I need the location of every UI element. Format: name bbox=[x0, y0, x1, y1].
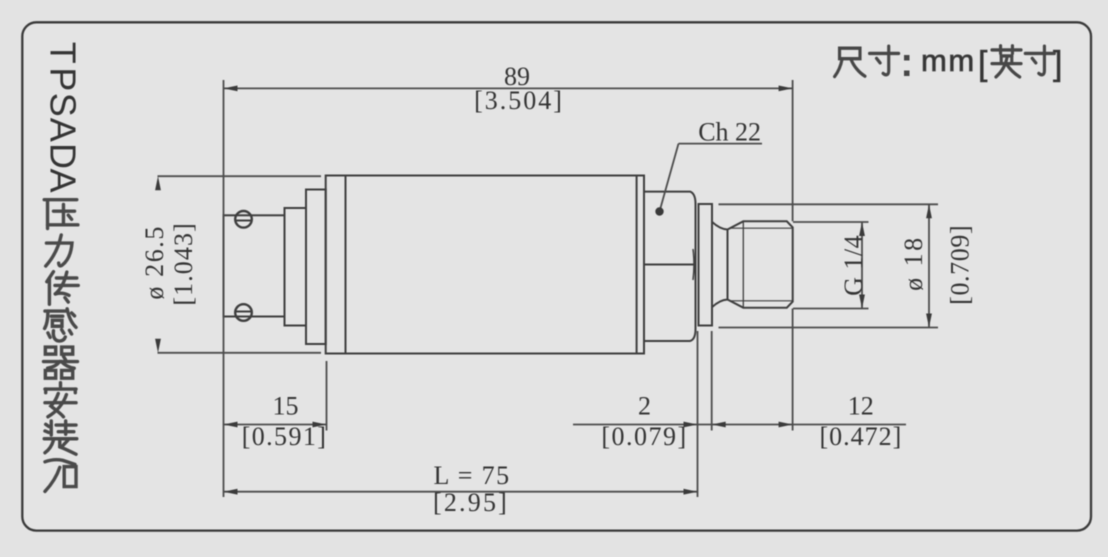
svg-text:ø 18: ø 18 bbox=[899, 235, 928, 291]
svg-text:P: P bbox=[43, 67, 84, 91]
svg-text:]: ] bbox=[1053, 45, 1062, 83]
svg-text:[: [ bbox=[978, 45, 988, 83]
svg-text:L = 75: L = 75 bbox=[434, 461, 511, 490]
svg-text:[3.504]: [3.504] bbox=[474, 86, 564, 115]
svg-text:ø 26.5: ø 26.5 bbox=[140, 225, 169, 300]
svg-text:[0.079]: [0.079] bbox=[601, 422, 687, 451]
svg-text:G 1/4: G 1/4 bbox=[839, 235, 868, 296]
svg-text:A: A bbox=[43, 118, 84, 142]
svg-text:D: D bbox=[43, 143, 84, 169]
svg-text:S: S bbox=[43, 93, 84, 117]
svg-text:[1.043]: [1.043] bbox=[169, 222, 198, 306]
svg-text:2: 2 bbox=[638, 392, 651, 421]
svg-text:[2.95]: [2.95] bbox=[433, 488, 509, 517]
svg-text:[0.709]: [0.709] bbox=[945, 225, 974, 305]
svg-text:mm: mm bbox=[921, 43, 976, 78]
svg-text:T: T bbox=[43, 42, 84, 64]
svg-text:[0.591]: [0.591] bbox=[242, 422, 328, 451]
svg-text:A: A bbox=[43, 169, 84, 193]
svg-text:15: 15 bbox=[273, 392, 299, 421]
svg-text:12: 12 bbox=[848, 392, 874, 421]
svg-text:[0.472]: [0.472] bbox=[819, 422, 902, 451]
